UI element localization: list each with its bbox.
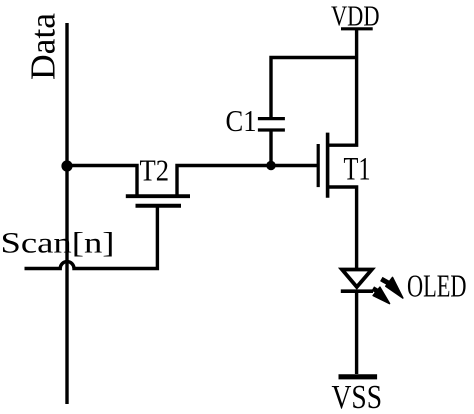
transistor T2 gate bar (136, 204, 182, 208)
svg-text:VSS: VSS (332, 379, 383, 414)
power VSS bar (339, 374, 378, 379)
wire T1 source to OLED anode (328, 187, 357, 270)
power VDD bar (341, 27, 373, 30)
wire C1 top plate to VDD line (271, 58, 357, 118)
capacitor C1 bottom plate (258, 128, 285, 131)
diode OLED cathode bar (341, 289, 373, 293)
svg-text:T2: T2 (140, 153, 170, 188)
transistor T1 channel bar (326, 133, 330, 198)
svg-text:Scan[n]: Scan[n] (1, 227, 115, 260)
wire Data vertical line (65, 23, 68, 404)
node junction dot on Data line (61, 160, 72, 171)
svg-text:OLED: OLED (407, 269, 467, 304)
wire from Data junction to T2 source (67, 166, 137, 195)
svg-text:C1: C1 (226, 103, 257, 138)
transistor T1 gate bar (317, 144, 320, 187)
wire T2 gate to Scan line (25, 208, 158, 269)
transistor T2 channel bar (126, 194, 190, 198)
wire T2 drain to gate node (177, 166, 318, 195)
arrow OLED emission arrow 2 (large) (381, 278, 403, 299)
node storage-node junction dot (266, 161, 275, 170)
wire C1 bottom plate to storage node (269, 132, 272, 166)
svg-text:Data: Data (24, 13, 63, 80)
wire VDD to T1 drain (328, 29, 357, 145)
diode OLED triangle (342, 270, 372, 288)
svg-text:T1: T1 (344, 152, 371, 188)
capacitor C1 top plate (258, 117, 285, 120)
wire OLED cathode to VSS (355, 291, 358, 374)
arrow OLED emission arrow 1 (small) (373, 287, 390, 303)
